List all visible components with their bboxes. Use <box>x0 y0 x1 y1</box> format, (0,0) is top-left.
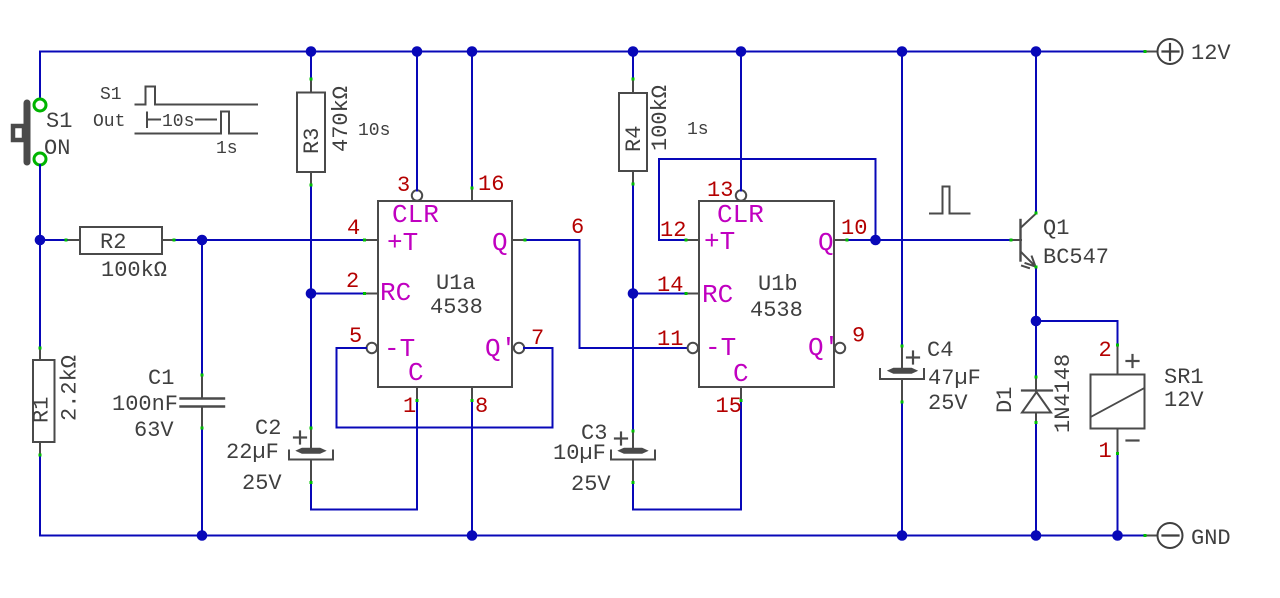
wire R2 to U1a pin4 <box>174 239 365 241</box>
svg-text:ON: ON <box>44 136 70 161</box>
wire R4 top <box>632 52 634 80</box>
node junction pin3 rail <box>412 46 423 57</box>
wire pin16 to rail <box>471 52 473 189</box>
wire +T2 loop <box>659 159 876 240</box>
wire RC2 node to pin14 <box>633 293 686 295</box>
svg-text:Q: Q <box>818 228 834 258</box>
svg-text:C: C <box>408 358 424 388</box>
svg-text:S1: S1 <box>46 109 72 134</box>
svg-text:CLR: CLR <box>392 200 439 230</box>
svg-text:C2: C2 <box>255 416 281 441</box>
svg-text:25V: 25V <box>242 471 282 496</box>
svg-text:14: 14 <box>657 273 683 298</box>
green pin tip marks <box>39 50 1147 537</box>
svg-text:11: 11 <box>657 327 683 352</box>
wire gnd rail <box>40 455 1144 536</box>
U1a pin3 CLR circle <box>412 190 422 200</box>
capacitor C2 22uF <box>226 416 333 496</box>
U1b pin11 -T circle <box>688 343 698 353</box>
resistor R3 470k <box>297 79 390 185</box>
node junction D1 gnd <box>1031 530 1042 541</box>
svg-text:4538: 4538 <box>750 298 803 323</box>
svg-text:S1: S1 <box>100 85 122 105</box>
node junction Q2/+T2 <box>870 235 881 246</box>
svg-text:Q1: Q1 <box>1043 216 1069 241</box>
svg-text:BC547: BC547 <box>1043 245 1109 270</box>
svg-text:10s: 10s <box>358 121 390 141</box>
node 12V terminal <box>1146 39 1231 66</box>
wire CLR2 to rail <box>740 52 742 191</box>
wire RC node to pin2 <box>311 293 365 295</box>
svg-text:U1a: U1a <box>436 271 476 296</box>
svg-text:100nF: 100nF <box>112 392 178 417</box>
svg-text:RC: RC <box>380 278 411 308</box>
svg-text:22µF: 22µF <box>226 440 279 465</box>
capacitor C4 47uF <box>880 338 981 416</box>
svg-text:C: C <box>733 359 749 389</box>
svg-text:SR1: SR1 <box>1164 365 1204 390</box>
op-amp U1a 4538 box <box>378 200 516 388</box>
U1a pin stubs <box>365 188 525 400</box>
wire R4 to RC2 node <box>632 184 634 294</box>
svg-text:16: 16 <box>478 172 504 197</box>
U1a pin5 -T circle <box>367 343 377 353</box>
switch S1 <box>13 99 72 165</box>
svg-text:2.2kΩ: 2.2kΩ <box>58 355 83 421</box>
wire RC2 node down to C3 <box>632 294 634 432</box>
U1a pin7 Q' circle <box>514 343 524 353</box>
wire C3 bottom loop to pin15 <box>633 401 741 510</box>
node junction C4 gnd <box>897 530 908 541</box>
wire CLR1 to rail <box>416 52 418 191</box>
svg-text:12V: 12V <box>1191 41 1231 66</box>
relay SR1 <box>1091 345 1205 454</box>
svg-text:C4: C4 <box>927 338 953 363</box>
wire C4 bottom <box>901 402 903 536</box>
svg-text:100kΩ: 100kΩ <box>101 258 167 283</box>
wire Q2 to transistor base <box>847 239 1011 241</box>
wire top rail <box>40 52 1144 100</box>
capacitor C1 100nF <box>112 366 224 443</box>
wire C4 top <box>901 52 903 347</box>
svg-text:100kΩ: 100kΩ <box>648 85 673 151</box>
node junction pin16 rail <box>467 46 478 57</box>
node junction R3/C2/RC <box>306 288 317 299</box>
svg-text:U1b: U1b <box>758 272 798 297</box>
svg-text:12V: 12V <box>1164 388 1204 413</box>
svg-text:63V: 63V <box>134 418 174 443</box>
wire pin8 to gnd <box>471 400 473 536</box>
node junction R4 rail <box>628 46 639 57</box>
node junction C1 tap <box>197 235 208 246</box>
U1b pin stubs <box>686 240 847 400</box>
svg-text:1: 1 <box>403 394 416 419</box>
svg-text:15: 15 <box>716 394 742 419</box>
svg-text:10µF: 10µF <box>553 441 606 466</box>
wire RC node down to C2 <box>310 294 312 429</box>
U1b pin9 Q' circle <box>835 343 845 353</box>
wire C1 top <box>201 240 203 375</box>
svg-text:2: 2 <box>346 269 359 294</box>
svg-text:D1: D1 <box>993 387 1018 413</box>
svg-text:Q: Q <box>492 228 508 258</box>
svg-text:R1: R1 <box>30 397 55 423</box>
wire S1 to R1 node <box>39 165 41 348</box>
svg-text:4: 4 <box>347 216 360 241</box>
svg-text:RC: RC <box>702 280 733 310</box>
wire Q1 collector to rail <box>1035 52 1037 214</box>
wire R3 top <box>310 52 312 80</box>
resistor R4 100k <box>619 79 709 184</box>
resistor R2 100k <box>67 227 174 283</box>
node junction emitter/D1/relay <box>1031 316 1042 327</box>
svg-text:R3: R3 <box>300 128 325 154</box>
svg-text:+T: +T <box>704 227 735 257</box>
svg-text:R4: R4 <box>622 126 647 152</box>
svg-text:+T: +T <box>387 228 418 258</box>
wire R2 left <box>40 239 67 241</box>
svg-text:9: 9 <box>852 324 865 349</box>
op-amp U1b 4538 box <box>699 200 839 389</box>
U1b pin13 CLR circle <box>736 190 746 200</box>
svg-text:8: 8 <box>475 394 488 419</box>
svg-text:25V: 25V <box>928 391 968 416</box>
node junction relay gnd <box>1112 530 1123 541</box>
wire Q1 emitter down <box>1035 267 1037 321</box>
svg-text:GND: GND <box>1191 526 1231 551</box>
svg-text:470kΩ: 470kΩ <box>329 86 354 152</box>
svg-text:1s: 1s <box>687 120 709 140</box>
wire -T loop U1a <box>337 348 553 428</box>
pulse glyph near Q1 <box>930 187 970 214</box>
svg-text:1s: 1s <box>216 139 238 159</box>
resistor R1 2.2k <box>30 348 83 455</box>
svg-text:5: 5 <box>349 324 362 349</box>
capacitor C3 10uF <box>553 421 655 497</box>
wire emitter to relay <box>1036 321 1118 345</box>
node junction S1/R2 <box>35 235 46 246</box>
node junction R4/C3/RC2 <box>628 288 639 299</box>
wire D1 bottom <box>1035 423 1037 536</box>
svg-text:1N4148: 1N4148 <box>1051 354 1076 433</box>
wire C2 bottom loop to pin1 <box>311 401 417 510</box>
svg-text:4538: 4538 <box>430 295 483 320</box>
svg-text:-T: -T <box>705 333 736 363</box>
svg-text:C1: C1 <box>148 366 174 391</box>
svg-text:13: 13 <box>707 178 733 203</box>
node junction pin8 gnd <box>467 530 478 541</box>
svg-text:10: 10 <box>841 216 867 241</box>
diode D1 1N4148 <box>993 354 1076 433</box>
svg-text:Q': Q' <box>485 334 516 364</box>
svg-text:CLR: CLR <box>717 200 764 230</box>
wire R3 to RC node <box>310 185 312 294</box>
svg-text:3: 3 <box>397 173 410 198</box>
wire Q1a to pin11 <box>525 240 688 348</box>
node junction C4 rail <box>897 46 908 57</box>
node junction pin13 rail <box>736 46 747 57</box>
svg-text:10s: 10s <box>162 112 194 132</box>
wire relay pin1 to gnd <box>1117 454 1119 536</box>
wire D1 top <box>1035 321 1037 377</box>
transistor Q1 BC547 <box>1011 214 1109 271</box>
svg-text:R2: R2 <box>100 230 126 255</box>
wire C1 bottom <box>201 428 203 536</box>
node junction C1 gnd <box>197 530 208 541</box>
svg-text:25V: 25V <box>571 472 611 497</box>
timing diagram S1/Out <box>136 87 258 134</box>
node junction Q1 rail <box>1031 46 1042 57</box>
svg-text:6: 6 <box>571 215 584 240</box>
svg-text:1: 1 <box>1099 439 1112 464</box>
node junction R3 rail <box>306 46 317 57</box>
node GND terminal <box>1146 523 1231 551</box>
svg-text:Out: Out <box>93 112 125 132</box>
svg-text:2: 2 <box>1099 338 1112 363</box>
svg-text:47µF: 47µF <box>928 366 981 391</box>
